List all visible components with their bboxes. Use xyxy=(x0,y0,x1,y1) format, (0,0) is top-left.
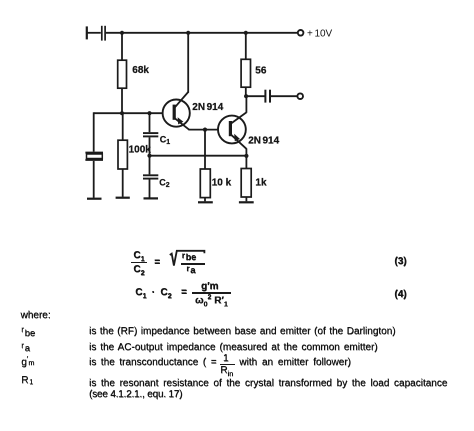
wire: C2 to ground xyxy=(149,180,151,198)
ground (C2) xyxy=(144,197,159,199)
node: C1/C2 tap xyxy=(147,154,151,158)
svg-text:1k: 1k xyxy=(255,178,267,189)
svg-text:56: 56 xyxy=(255,65,267,76)
output terminal xyxy=(297,93,303,99)
wire: feedback line tap to Q2 emitter xyxy=(150,155,247,157)
equation (3) xyxy=(130,251,148,264)
wire: rail to 56 xyxy=(245,33,247,60)
svg-text:100k: 100k xyxy=(129,144,152,155)
node: base line / C1 xyxy=(147,111,151,115)
where section xyxy=(21,311,51,321)
wire: rail to 68k xyxy=(121,33,123,60)
node: Q2 emitter / feedback / 1k xyxy=(244,154,248,158)
node: rail/Q1 collector junction xyxy=(186,31,190,35)
capacitor C1 xyxy=(143,133,170,146)
crystal X1 xyxy=(85,153,103,160)
wire: Q2 emitter down to feedback node xyxy=(245,148,247,156)
svg-text:C2: C2 xyxy=(159,178,170,190)
wire: capacitor to output terminal xyxy=(271,95,297,97)
wire: 100k to ground xyxy=(122,169,124,197)
wire: 68k to base node xyxy=(121,88,123,113)
wire: base node to 100k xyxy=(122,113,124,140)
node: emitter/base/10k junction xyxy=(203,128,207,132)
transistor Q2 2N914 xyxy=(218,112,280,148)
ground (crystal) xyxy=(87,198,102,200)
wire: node to 1k xyxy=(245,156,247,169)
wire: node down to 10k xyxy=(204,130,206,169)
transistor Q1 2N914 xyxy=(163,92,224,130)
wire: base line down to crystal xyxy=(93,112,95,151)
resistor 10k xyxy=(200,169,231,198)
wire: Q1 collector to rail xyxy=(187,32,189,93)
svg-text:C1: C1 xyxy=(160,135,171,147)
node: base line / 68k-100k xyxy=(120,111,124,115)
wire: Q1 emitter to Q2 base xyxy=(188,129,218,131)
node: rail/56 junction xyxy=(244,31,248,35)
wire: node to output capacitor xyxy=(246,95,264,97)
input coupling capacitor xyxy=(102,26,105,41)
node: rail/68k junction xyxy=(120,31,124,35)
ground (100k) xyxy=(116,197,130,199)
resistor 56 xyxy=(241,59,267,87)
wire: +10V top rail xyxy=(106,32,298,34)
svg-text:+10V: +10V xyxy=(307,28,333,39)
svg-text:68k: 68k xyxy=(132,65,149,76)
wire: 1k to ground xyxy=(245,197,247,201)
resistor 1k xyxy=(241,169,267,198)
svg-text:2N914: 2N914 xyxy=(248,135,279,146)
svg-text:2N914: 2N914 xyxy=(192,102,223,113)
ground (10k) xyxy=(198,201,213,203)
wire: 56 to output node xyxy=(245,87,247,96)
output coupling capacitor xyxy=(265,90,270,103)
wire: crystal to ground xyxy=(93,161,95,198)
wire: C1 to tap node xyxy=(149,137,151,155)
wire: tap node to C2 xyxy=(149,156,151,175)
equation (4) xyxy=(135,288,146,301)
svg-text:10 k: 10 k xyxy=(212,178,232,189)
resistor 68k xyxy=(118,60,150,88)
wire: 10k to ground xyxy=(204,198,206,202)
resistor 100k xyxy=(118,140,151,169)
node: 56/collector/output xyxy=(244,94,248,98)
+10V terminal xyxy=(298,28,333,39)
input terminal stub xyxy=(87,26,101,39)
wire: base line xyxy=(94,112,163,114)
wire: base node to C1 xyxy=(149,113,151,132)
capacitor C2 xyxy=(143,175,170,189)
wire: Q2 collector up to 56 node xyxy=(245,95,247,112)
ground (1k) xyxy=(239,201,254,203)
